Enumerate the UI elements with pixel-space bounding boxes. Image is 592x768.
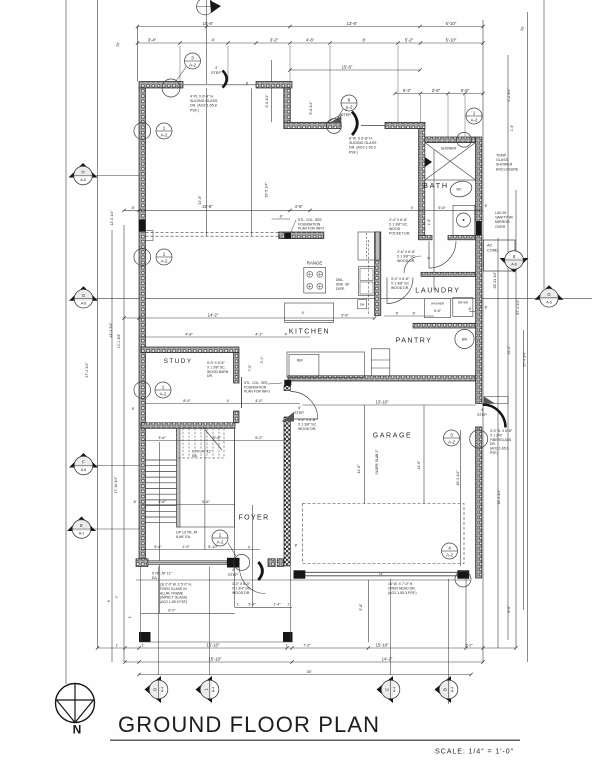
svg-text:A-4: A-4 [161, 687, 165, 693]
svg-text:SHOWER: SHOWER [441, 147, 457, 151]
black wall segment right (vanity) [476, 221, 482, 235]
wall study east upper [234, 353, 240, 383]
svg-text:A-2: A-2 [161, 132, 168, 137]
interior dim line garage [459, 430, 461, 566]
svg-text:N: N [73, 723, 82, 737]
bath door swing [429, 241, 456, 268]
svg-text:4′: 4′ [211, 38, 214, 43]
svg-text:EA.: EA. [152, 576, 158, 580]
svg-text:A-2: A-2 [448, 439, 455, 444]
top grid marker circle [197, 0, 214, 15]
marker 2/A-2 foyer [212, 530, 228, 546]
dimension line right x544 to section G [543, 0, 545, 289]
svg-text:SHOWER: SHOWER [496, 163, 513, 167]
svg-text:4′: 4′ [302, 311, 305, 315]
svg-text:X 1 3/8″ SC.: X 1 3/8″ SC. [298, 423, 317, 427]
svg-text:3: 3 [450, 432, 453, 437]
dim line top 4 [395, 93, 483, 95]
svg-text:1′: 1′ [128, 615, 132, 618]
svg-text:A-4: A-4 [212, 687, 216, 693]
svg-text:LAUNDRY: LAUNDRY [415, 286, 460, 295]
svg-text:4′: 4′ [285, 332, 288, 336]
svg-text:X 1 3/8″ SC.: X 1 3/8″ SC. [207, 365, 226, 369]
wall bath south west stub [419, 236, 432, 240]
svg-text:5′-2″: 5′-2″ [405, 38, 414, 43]
svg-text:X 1 3/4″: X 1 3/4″ [490, 433, 503, 437]
leader 2/A-2 [228, 543, 236, 556]
svg-text:A-1: A-1 [79, 532, 85, 536]
callout circle bath wall [457, 132, 472, 147]
callout circle left wall upper [134, 123, 151, 140]
svg-text:DW: DW [360, 303, 365, 307]
grid line to marker D [158, 567, 160, 676]
dim line stairs 2 [141, 504, 235, 506]
overhead garage door [305, 571, 458, 573]
pocket door gray edge [375, 232, 379, 260]
svg-text:G: G [82, 293, 85, 298]
porch column east [283, 632, 293, 642]
grid line from top marker [206, 0, 208, 84]
porch front line [139, 641, 293, 643]
dim line porch 6-2 [141, 612, 235, 614]
callout circle step wall [327, 119, 342, 134]
svg-text:DR.: DR. [490, 442, 496, 446]
svg-text:DR. (AO2 1-53.3: DR. (AO2 1-53.3 [349, 146, 376, 150]
svg-text:STEP: STEP [294, 411, 304, 415]
dimension line right x508 [507, 55, 509, 640]
svg-text:DISP.: DISP. [336, 287, 345, 291]
svg-text:1: 1 [163, 125, 166, 130]
bottom marker D [145, 676, 168, 703]
svg-text:4: 4 [448, 545, 451, 550]
dimension ticks bottom [96, 646, 99, 649]
dimension line left x112 [111, 230, 113, 662]
svg-text:5′-6″: 5′-6″ [341, 313, 349, 317]
svg-text:8′: 8′ [134, 500, 137, 504]
dim line stairs 1 [141, 440, 290, 442]
wall study north [141, 347, 239, 353]
svg-text:3′-0″ N. X 6′-8″: 3′-0″ N. X 6′-8″ [490, 429, 513, 433]
svg-text:3′-6 3/4″: 3′-6 3/4″ [265, 94, 269, 108]
svg-text:14′-5″: 14′-5″ [198, 195, 202, 205]
callout circle left wall lower [134, 382, 151, 399]
dimension line left x124 [123, 225, 125, 662]
svg-text:ENCLOSURE: ENCLOSURE [496, 167, 519, 171]
wall kitchen north [279, 232, 324, 239]
dim line bottom 1 [98, 647, 517, 649]
svg-text:ALUM. FRAME: ALUM. FRAME [160, 591, 184, 595]
interior dim line bath hall [433, 150, 435, 290]
svg-text:RANGE: RANGE [307, 261, 323, 266]
svg-text:17′-10 3/4″: 17′-10 3/4″ [114, 476, 118, 494]
svg-text:18′-3 1/4″: 18′-3 1/4″ [497, 489, 501, 505]
svg-text:7′: 7′ [115, 595, 119, 598]
svg-text:7′-2″: 7′-2″ [303, 643, 311, 647]
svg-text:14′-2″: 14′-2″ [382, 656, 393, 661]
svg-text:8′: 8′ [362, 38, 365, 43]
svg-text:8′: 8′ [280, 215, 283, 219]
svg-text:45′-2″: 45′-2″ [507, 345, 511, 355]
svg-text:3′-6″: 3′-6″ [158, 436, 166, 440]
svg-text:STEP: STEP [228, 573, 238, 577]
svg-text:16′ W. X 7′-0″ H.: 16′ W. X 7′-0″ H. [388, 582, 413, 586]
svg-text:FOYER: FOYER [238, 515, 269, 522]
svg-text:A-6: A-6 [81, 301, 87, 305]
svg-text:VANITY W/: VANITY W/ [495, 216, 513, 220]
svg-text:GROUND FLOOR PLAN: GROUND FLOOR PLAN [118, 712, 381, 737]
svg-text:8′: 8′ [469, 307, 472, 311]
front entry door crescent [258, 562, 262, 580]
svg-text:5′-6″: 5′-6″ [202, 500, 210, 504]
svg-text:3′-0″ X 6′-8″: 3′-0″ X 6′-8″ [391, 277, 410, 281]
dim vertical foyer x234 [233, 428, 235, 607]
svg-text:8: 8 [348, 97, 351, 102]
wall exterior top-left east segment [256, 82, 292, 89]
svg-text:PANTRY: PANTRY [396, 338, 433, 345]
dim laundry [384, 315, 434, 317]
lavatory vanity [453, 205, 475, 235]
svg-text:8′: 8′ [246, 82, 249, 86]
dimension ticks top [136, 25, 139, 28]
svg-text:STEP: STEP [477, 413, 487, 417]
svg-text:4′-6″: 4′-6″ [295, 204, 304, 209]
svg-text:STEP: STEP [211, 71, 221, 75]
section line F [93, 465, 139, 467]
svg-text:D: D [153, 688, 158, 691]
svg-text:A-4: A-4 [451, 687, 455, 693]
dim line top 2 [138, 42, 484, 44]
svg-text:5′-2″: 5′-2″ [255, 436, 263, 440]
svg-text:B: B [443, 688, 448, 691]
svg-text:1′: 1′ [116, 643, 119, 647]
dim line bottom 3 [139, 674, 471, 676]
steel column garage NW [284, 380, 291, 386]
svg-text:4′: 4′ [345, 108, 348, 112]
steel column kitchen wall [284, 233, 291, 239]
svg-text:PSF.): PSF.) [190, 108, 199, 112]
svg-text:A-5: A-5 [546, 300, 552, 304]
svg-text:C: C [385, 688, 390, 691]
svg-text:DRYER: DRYER [458, 301, 469, 305]
svg-text:1′: 1′ [142, 643, 145, 647]
beam dashed line A [146, 231, 279, 233]
leader steel col mid [268, 383, 282, 384]
sliding door leaf crescent top-middle step door [352, 112, 357, 136]
svg-text:(AO2 1-55.3 PSF.): (AO2 1-55.3 PSF.) [388, 591, 417, 595]
study barn door [241, 377, 243, 408]
svg-text:5′-4″: 5′-4″ [248, 603, 256, 607]
svg-text:1: 1 [162, 384, 165, 389]
section line H [92, 175, 139, 177]
svg-text:1: 1 [163, 251, 166, 256]
svg-text:FIXED GLASS IN: FIXED GLASS IN [160, 587, 187, 591]
top grid marker arrow [210, 1, 221, 14]
svg-text:15′-10″: 15′-10″ [376, 642, 389, 647]
svg-text:6.66″ EA.: 6.66″ EA. [176, 535, 191, 539]
svg-text:5′-5″: 5′-5″ [461, 88, 470, 93]
marker 4/A-2 garage door [442, 543, 458, 559]
step at garage side door [484, 397, 508, 404]
svg-text:E: E [80, 523, 83, 528]
svg-text:TEMP.: TEMP. [496, 154, 507, 158]
AC diamond marker [500, 251, 529, 273]
pocket door pocket [358, 232, 380, 260]
svg-text:BATH: BATH [423, 181, 449, 190]
callout circle front door [234, 554, 250, 570]
wall exterior right upper [476, 137, 482, 221]
svg-text:PSF.): PSF.) [349, 150, 358, 154]
svg-text:28′-11 1/2″: 28′-11 1/2″ [493, 271, 497, 289]
svg-text:4′: 4′ [248, 545, 251, 549]
sliding glass door line top-left [183, 84, 256, 86]
svg-text:13′-10″: 13′-10″ [376, 399, 389, 404]
svg-text:(AO2 1-65.6: (AO2 1-65.6 [490, 447, 509, 451]
water heater BW [455, 329, 474, 348]
svg-text:2′-6″ X 6′-8″: 2′-6″ X 6′-8″ [397, 250, 416, 254]
svg-text:FIBERGLASS: FIBERGLASS [490, 438, 512, 442]
wall exterior left [139, 88, 146, 566]
dimension line right x516 [515, 190, 517, 648]
svg-text:A-6: A-6 [80, 178, 86, 182]
sliding door leaf crescent top-left [223, 71, 227, 88]
section marker E left [67, 517, 96, 539]
garage side door crescent [483, 405, 506, 428]
svg-text:3′-4″: 3′-4″ [148, 38, 157, 43]
svg-text:PLAN FOR INFO: PLAN FOR INFO [298, 227, 324, 231]
bottom marker B [435, 676, 458, 703]
svg-text:4′: 4′ [298, 406, 301, 410]
stair dashed opening [177, 428, 224, 458]
property line left outer [65, 0, 67, 684]
callout circle left wall mid [134, 249, 151, 266]
svg-text:8′-6″: 8′-6″ [507, 605, 511, 613]
wall top-middle east of step door [385, 122, 425, 128]
svg-text:5′-6″: 5′-6″ [213, 436, 221, 440]
garage slab dashed [303, 504, 465, 564]
svg-text:A-6: A-6 [511, 263, 517, 267]
svg-text:4′: 4′ [215, 66, 218, 70]
svg-text:7′-5″: 7′-5″ [248, 364, 252, 372]
svg-text:5′: 5′ [427, 256, 431, 259]
pocket door dashed line [366, 233, 368, 259]
svg-text:BW: BW [462, 338, 468, 342]
svg-text:OVER HEAD DR.: OVER HEAD DR. [388, 587, 416, 591]
callout circle garage right wall [470, 430, 488, 448]
svg-text:4′: 4′ [411, 206, 414, 210]
wall kitchen/hall vertical [375, 232, 381, 316]
svg-text:1′-0″: 1′-0″ [182, 545, 190, 549]
svg-text:WOOD BARN: WOOD BARN [207, 370, 229, 374]
wall bath south east [448, 236, 476, 240]
dimension line right x523 [523, 330, 525, 610]
svg-text:1′-4″: 1′-4″ [273, 603, 281, 607]
dim line entry 5-4 [235, 606, 292, 608]
front entry door swing arc [240, 568, 266, 594]
svg-text:(IMPACT GLASS): (IMPACT GLASS) [160, 596, 187, 600]
section marker F left [69, 453, 98, 475]
dim vertical garage x424 [423, 405, 425, 504]
svg-text:5′-2″: 5′-2″ [403, 88, 412, 93]
svg-text:1′: 1′ [237, 603, 240, 607]
wall garage west stub upper [284, 386, 290, 391]
door opening line top-middle [361, 124, 385, 126]
svg-text:WOOD: WOOD [389, 227, 401, 231]
svg-text:8′ W. X 6′-8″ H.: 8′ W. X 6′-8″ H. [349, 137, 373, 141]
grid line to marker B [448, 579, 450, 704]
svg-text:8′-0″: 8′-0″ [183, 399, 191, 403]
dim line top 1 [138, 26, 484, 28]
dim line 15-8 [124, 209, 483, 211]
svg-text:EA.: EA. [192, 454, 198, 458]
dimension line right x483 [482, 20, 484, 662]
svg-text:15′-8″: 15′-8″ [202, 204, 213, 209]
wall exterior right middle [476, 235, 482, 403]
svg-text:8′: 8′ [485, 204, 488, 208]
section marker G right [535, 285, 564, 307]
svg-text:6 TR. AT 11″: 6 TR. AT 11″ [192, 450, 213, 454]
wall top-middle west of step door [284, 122, 341, 128]
wall garage west [284, 417, 290, 566]
dimension line right x498 [497, 238, 499, 648]
section line E [91, 528, 139, 530]
svg-text:X 1 3/8″ SC.: X 1 3/8″ SC. [397, 255, 416, 259]
svg-text:5′-0″ X 6′-8″: 5′-0″ X 6′-8″ [207, 361, 225, 365]
svg-text:SLOPE SLAB 2″: SLOPE SLAB 2″ [375, 449, 379, 475]
section marker H left [69, 163, 98, 185]
svg-text:WOOD DR.: WOOD DR. [232, 591, 250, 595]
shower [425, 143, 476, 181]
extension lines top walls [179, 46, 181, 82]
svg-text:DR. (AO2 1-55.8: DR. (AO2 1-55.8 [190, 104, 217, 108]
svg-text:4′: 4′ [227, 399, 230, 403]
wall laundry north [421, 272, 476, 276]
svg-text:3′-0″ X 8′-0″: 3′-0″ X 8′-0″ [232, 582, 251, 586]
svg-text:3′-2″: 3′-2″ [270, 38, 279, 43]
svg-text:WASHER: WASHER [431, 302, 445, 306]
leader 8/A-2 [337, 109, 343, 119]
svg-text:STEP: STEP [341, 113, 351, 117]
svg-text:13′-8″: 13′-8″ [347, 21, 358, 26]
svg-text:A-2: A-2 [217, 539, 224, 544]
front window center line [148, 562, 227, 564]
svg-text:14′-2″: 14′-2″ [208, 312, 219, 317]
svg-text:8′: 8′ [132, 407, 135, 411]
svg-text:2′-2″: 2′-2″ [465, 643, 473, 647]
svg-text:A-4: A-4 [393, 687, 397, 693]
stair break line [203, 427, 222, 450]
svg-text:15′-6″: 15′-6″ [342, 65, 353, 70]
svg-text:F: F [82, 460, 85, 465]
wall front west corner [136, 559, 148, 567]
svg-text:5 TR. AT 11″: 5 TR. AT 11″ [152, 572, 173, 576]
svg-text:1′-4″: 1′-4″ [427, 218, 431, 226]
callout circle garage column [455, 571, 471, 587]
svg-text:8′: 8′ [485, 306, 488, 310]
svg-text:37′-4 3/4″: 37′-4 3/4″ [85, 362, 89, 378]
svg-text:WOOD DR.: WOOD DR. [397, 259, 415, 263]
svg-text:1: 1 [473, 110, 476, 115]
svg-text:5′-10″: 5′-10″ [446, 21, 457, 26]
beam pocket at left wall [146, 231, 154, 241]
laundry door swing [387, 278, 413, 304]
svg-text:4′-0″: 4′-0″ [255, 399, 263, 403]
svg-text:SLIDING GLASS: SLIDING GLASS [349, 141, 377, 145]
svg-text:DBL.: DBL. [336, 278, 344, 282]
wall exterior right lower [476, 427, 482, 578]
svg-text:X 1 3/8″ SC.: X 1 3/8″ SC. [389, 223, 408, 227]
garage entry door swing [290, 392, 318, 420]
svg-text:2: 2 [219, 532, 222, 537]
svg-text:4′-6″: 4′-6″ [306, 38, 315, 43]
svg-text:UP 13 TR. AT: UP 13 TR. AT [176, 531, 199, 535]
grid line to marker C2 [209, 567, 211, 676]
section line G across plan [93, 298, 592, 300]
svg-text:35′: 35′ [307, 670, 312, 674]
svg-text:4′: 4′ [232, 568, 235, 572]
step symbol at top-middle door [327, 115, 341, 123]
svg-text:H: H [81, 170, 84, 175]
svg-text:SCALE: 1/4″ = 1′-0″: SCALE: 1/4″ = 1′-0″ [435, 747, 514, 756]
svg-text:A-2: A-2 [189, 62, 196, 67]
callout circle top wall [162, 79, 180, 97]
wall bath north [425, 137, 476, 143]
svg-text:STUDY: STUDY [164, 358, 193, 365]
svg-text:KITCHEN: KITCHEN [289, 329, 330, 336]
dim vertical foyer x252 [252, 505, 254, 607]
front step line [136, 579, 470, 581]
svg-text:OVER: OVER [495, 225, 506, 229]
refrigerator counter [287, 352, 365, 377]
svg-text:A-6: A-6 [81, 468, 87, 472]
porch edge east [290, 567, 292, 643]
kitchen counter dashed [368, 240, 370, 315]
interior dim line x251 [251, 88, 253, 236]
title underline [110, 739, 520, 741]
svg-text:POCKET DR.: POCKET DR. [389, 232, 410, 236]
stair treads lower run [146, 459, 177, 461]
svg-text:5′-10″: 5′-10″ [208, 545, 218, 549]
wall bath west [419, 129, 425, 240]
svg-text:GARAGE: GARAGE [373, 433, 413, 440]
svg-text:44′-4 3/4″: 44′-4 3/4″ [109, 322, 113, 338]
svg-text:10′-5 1/4″: 10′-5 1/4″ [265, 182, 269, 198]
bottom marker C [377, 676, 400, 703]
marker 1/A-2 left mid [156, 249, 172, 265]
svg-text:5′-8″: 5′-8″ [359, 603, 363, 611]
svg-text:4′-1″: 4′-1″ [255, 332, 263, 336]
svg-text:97′-4 3/4″: 97′-4 3/4″ [523, 351, 527, 367]
wall exterior top-left [139, 82, 183, 89]
wall pantry north [413, 323, 476, 328]
washer [425, 299, 451, 318]
svg-text:A-2: A-2 [160, 391, 167, 396]
svg-text:COND.: COND. [487, 248, 499, 252]
toilet [448, 179, 473, 199]
svg-text:2′-5″: 2′-5″ [432, 88, 441, 93]
stair left stringer wall [177, 428, 180, 527]
dim vertical foyer x205 [204, 430, 206, 550]
svg-text:PSF.): PSF.) [490, 451, 498, 455]
marker 3/A-2 top [185, 53, 201, 69]
stairwell outline [177, 428, 235, 527]
svg-text:15′-10″: 15′-10″ [207, 642, 220, 647]
svg-text:A-2: A-2 [446, 552, 453, 557]
svg-text:15′-6″: 15′-6″ [203, 21, 214, 26]
marker 1/A-2 left upper [156, 123, 172, 139]
dryer [453, 298, 473, 317]
dim line below garage x466 [465, 579, 467, 648]
AC condenser [484, 240, 516, 271]
